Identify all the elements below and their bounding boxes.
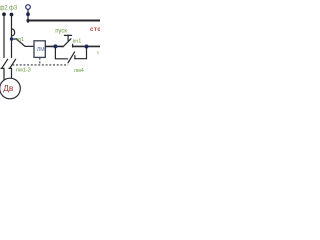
svg-text:стоп: стоп [90,27,100,33]
svg-text:пм1-3: пм1-3 [16,68,31,74]
svg-text:пуск: пуск [55,29,67,35]
svg-text:ЛМ: ЛМ [37,47,45,53]
svg-text:ф3: ф3 [9,6,18,12]
svg-text:тп1: тп1 [16,37,25,43]
svg-text:кн1: кн1 [73,39,82,45]
svg-text:ф2: ф2 [0,6,8,12]
svg-text:лм4: лм4 [74,68,84,74]
svg-text:Дв: Дв [3,83,14,93]
